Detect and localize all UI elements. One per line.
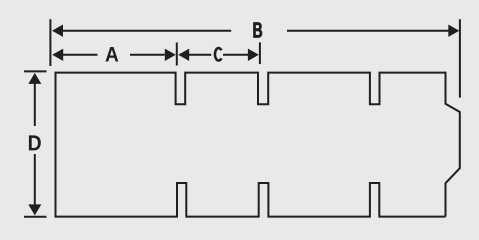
dimension D down arrowhead [28,204,41,215]
dimension A left arrowhead [52,49,63,61]
dimension C left arrowhead [178,49,189,61]
part outline: top edge with slots [56,73,446,105]
dimension D top tick [24,70,47,72]
label A [105,47,118,62]
part outline: left edge [55,72,57,218]
dimension A line [63,54,165,56]
label D [29,135,41,150]
label C [215,48,222,60]
label B [254,22,262,37]
dimension B line [63,30,449,32]
extension line right [459,19,461,97]
dimension D up arrowhead [28,73,41,84]
dimension C line [189,54,249,56]
dimension A right arrowhead [165,49,176,61]
part outline: bottom edge with tabs [56,183,446,217]
dimension C right arrowhead [248,49,259,61]
extension tick at slot 1 (A/C boundary) [176,43,178,66]
dimension D line [34,83,36,206]
dimension B left arrowhead [52,25,63,37]
dimension B right arrowhead [448,25,459,37]
part outline: right edge break joggle [446,72,460,217]
extension tick at slot 2 (C end) [259,42,261,64]
extension line left [49,19,51,66]
dimension D bottom tick [24,216,47,218]
